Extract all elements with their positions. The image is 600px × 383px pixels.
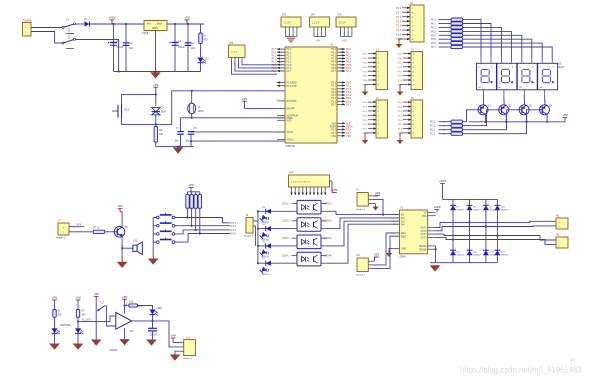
svg-text:SPK: SPK: [77, 224, 82, 227]
junction: [435, 248, 437, 250]
svg-text:Vin: Vin: [147, 22, 151, 25]
wire J9 gnd: [373, 203, 376, 205]
svg-text:Header 2: Header 2: [56, 237, 66, 240]
wire switch to D1: [76, 23, 85, 25]
capacitor C7 30p: [177, 131, 184, 133]
svg-text:P1.7: P1.7: [287, 71, 292, 73]
pin P1.5 left: [277, 64, 285, 66]
junction: [468, 221, 470, 223]
wire to base resistor: [439, 125, 452, 127]
svg-text:10K: 10K: [159, 133, 164, 136]
key switch K4: [157, 241, 160, 244]
diode D10: [494, 204, 500, 206]
pin 5 of J6: [403, 119, 411, 121]
svg-text:+5V: +5V: [184, 16, 191, 20]
wire segment net 3: [463, 31, 512, 57]
wire sensor row 3: [258, 245, 292, 247]
pin OUT1 of U7: [428, 227, 436, 229]
junction: [505, 121, 507, 123]
pin P0.3 right: [337, 58, 345, 60]
svg-text:ALE: ALE: [332, 122, 337, 125]
wire power stem: [119, 209, 121, 212]
pin 3 of JP1: [292, 27, 294, 37]
svg-text:P6.0: P6.0: [398, 102, 403, 104]
transistor Q1: [478, 105, 488, 115]
ground J2: [398, 42, 400, 45]
diode D9: [483, 204, 489, 206]
svg-text:OUT1: OUT1: [421, 228, 428, 230]
electrolytic capacitor C6 reset: [152, 108, 160, 115]
pin 10 of JP4: [324, 187, 326, 195]
pin 8 of J5: [368, 132, 376, 134]
pin EA/VPP: [277, 107, 285, 109]
pin 1 of J4: [403, 53, 411, 55]
svg-text:Header 3: Header 3: [356, 274, 366, 277]
pin 1 of J5: [368, 101, 376, 103]
connector J1 power input: [23, 23, 32, 37]
svg-text:↩: ↩: [570, 358, 575, 364]
svg-text:+5V: +5V: [562, 113, 569, 117]
svg-text:P2.4: P2.4: [331, 95, 336, 97]
capacitor C2: [123, 42, 130, 44]
header J2: [410, 5, 424, 42]
wire base Q1: [463, 110, 479, 122]
wire Q3 collector: [523, 95, 525, 105]
wire: [430, 262, 436, 264]
wire crystal ground line: [156, 146, 194, 148]
pin 5 of JP4: [306, 187, 308, 195]
svg-text:SENSB: SENSB: [419, 249, 427, 251]
svg-text:1N4007: 1N4007: [501, 210, 509, 212]
resistor RP2: [190, 195, 193, 209]
junction: [112, 23, 114, 25]
svg-text:OUT2: OUT2: [421, 231, 428, 233]
svg-text:Header 3: Header 3: [183, 357, 193, 360]
svg-text:P1.7: P1.7: [272, 70, 278, 73]
svg-text:P5.1: P5.1: [363, 107, 368, 109]
wire J7 pin2 to R7: [69, 231, 93, 233]
ground J4: [399, 89, 401, 92]
svg-text:P6.3: P6.3: [398, 115, 403, 117]
transistor Q5: [114, 227, 125, 238]
svg-text:OUT4: OUT4: [421, 238, 428, 240]
svg-text:-: -: [118, 325, 119, 329]
resistor R2: [451, 18, 463, 21]
connector M2: [556, 237, 568, 248]
pin 3 of JP3: [347, 27, 349, 37]
wire OUT4: [436, 237, 556, 244]
wire ground rail: [114, 71, 201, 73]
svg-text:470: 470: [204, 39, 209, 42]
svg-text:P1.0: P1.0: [287, 49, 292, 51]
wire K4 row: [175, 234, 231, 243]
connector J10: [357, 258, 368, 272]
pin 4 of J6: [403, 114, 411, 116]
resistor R1: [199, 33, 202, 44]
svg-text:P4.0: P4.0: [398, 54, 403, 56]
driver IC U7 L298: [400, 210, 428, 254]
wire R18 left: [125, 305, 129, 307]
svg-text:1N4007: 1N4007: [457, 210, 465, 212]
pin P1.3 left: [277, 58, 285, 60]
svg-text:P4.2: P4.2: [398, 63, 403, 65]
junction: [77, 320, 79, 322]
pin 1 of JP5: [231, 58, 233, 62]
wire K4 left: [153, 241, 156, 243]
svg-text:JP5: JP5: [229, 42, 234, 45]
svg-text:4 LED1A: 4 LED1A: [323, 202, 333, 205]
pin VSS of U7: [428, 215, 436, 217]
svg-text:LED1 1: LED1 1: [282, 203, 290, 205]
svg-text:P5.2: P5.2: [363, 111, 368, 113]
pin P2.4 right: [337, 94, 345, 96]
svg-text:Header 3: Header 3: [356, 208, 366, 211]
wire: [195, 192, 197, 195]
junction: [154, 70, 156, 72]
svg-text:220uF: 220uF: [117, 46, 124, 49]
photo diode PD3: [260, 248, 270, 258]
wire K1 row: [175, 218, 231, 223]
pin 2 of J10: [368, 264, 372, 266]
pin TXD left: [277, 85, 285, 87]
pin IN3 of U7: [392, 220, 400, 222]
top pin of DS3: [521, 58, 523, 63]
connector J8: [246, 218, 253, 234]
ground branch2: [73, 344, 84, 350]
svg-text:P1.2: P1.2: [396, 17, 401, 19]
header JP1: [281, 17, 301, 27]
junction: [546, 121, 548, 123]
svg-text:4 LED3A: 4 LED3A: [323, 237, 333, 240]
top pin of DS3: [531, 58, 533, 63]
wire sens to rail: [435, 246, 437, 263]
svg-text:P4.6: P4.6: [398, 80, 403, 82]
junction: [257, 228, 259, 230]
wire to R8: [439, 42, 452, 44]
svg-text:+5V: +5V: [122, 295, 129, 299]
header J3: [376, 52, 388, 90]
wire power stem: [111, 20, 113, 24]
pin 3 of JP5: [238, 58, 240, 62]
wire R2 to ground line: [155, 142, 157, 147]
svg-text:AT89C51: AT89C51: [285, 145, 296, 148]
wire power stem: [564, 117, 566, 121]
pin 2 of JP3: [343, 27, 345, 37]
LED D2 power indicator: [198, 58, 204, 63]
wire R18 to LED: [137, 306, 152, 310]
junction: [199, 232, 201, 234]
pin P1.0 left: [277, 48, 285, 50]
wire opto2 to IN2: [327, 218, 400, 229]
pin VSS right: [337, 135, 345, 137]
wire R7 to Q5 base: [105, 231, 115, 233]
header J4: [411, 52, 423, 90]
header J6: [411, 100, 423, 138]
pin 3 of J6: [403, 110, 411, 112]
ground crystal section: [173, 147, 184, 153]
bottom pin of DS2: [503, 89, 505, 95]
svg-text:LM393: LM393: [109, 348, 117, 352]
pin RST/VPD: [277, 100, 285, 102]
wire bus2: [254, 226, 256, 246]
pin 5 of J3: [368, 70, 376, 72]
photo diode PD1: [260, 213, 270, 223]
wire to R7: [439, 38, 452, 40]
svg-text:P3.6: P3.6: [363, 80, 368, 82]
svg-text:+5V: +5V: [75, 296, 82, 300]
wire Q1 collector: [482, 95, 484, 105]
wire RST to MCU: [156, 91, 285, 125]
header JP4: [289, 175, 330, 187]
svg-text:P1.4: P1.4: [287, 62, 292, 64]
svg-text:+5V: +5V: [52, 296, 59, 300]
svg-text:IN4148: IN4148: [262, 274, 270, 276]
pin XTAL1: [277, 131, 285, 133]
svg-text:P0.2: P0.2: [331, 56, 336, 58]
pin 6 of J2: [402, 29, 410, 31]
junction: [257, 245, 259, 247]
wire segment net 7: [463, 47, 553, 58]
wire to R1: [200, 24, 202, 33]
wire base Q4: [463, 110, 540, 134]
junction: [118, 70, 120, 72]
wire: [187, 192, 189, 195]
svg-text:P1.6: P1.6: [396, 35, 401, 37]
svg-text:P1.1: P1.1: [287, 52, 292, 54]
wire to C9: [152, 321, 154, 328]
pin 8 of J3: [368, 83, 376, 85]
wire to R4: [439, 26, 452, 28]
connector J7: [58, 223, 69, 235]
crystal Y1: [188, 103, 196, 114]
wire JP5 pin1: [232, 61, 278, 74]
capacitor C9: [148, 327, 157, 329]
bottom pin of DS3: [523, 89, 525, 95]
svg-text:P3.3: P3.3: [363, 67, 368, 69]
svg-text:P0.0: P0.0: [331, 49, 336, 51]
wire: [199, 192, 201, 195]
svg-text:P1.0: P1.0: [396, 8, 401, 10]
wire comparator output: [132, 320, 169, 322]
pin 7 of J4: [403, 79, 411, 81]
resistor RP4: [198, 195, 201, 209]
svg-text:+: +: [118, 316, 120, 320]
wire C5 bottom to RST node: [122, 118, 156, 124]
wire segment net 6: [463, 43, 543, 57]
junction: [191, 117, 193, 119]
svg-text:P3.4: P3.4: [363, 71, 368, 73]
LED D17: [150, 309, 156, 314]
svg-text:ENB: ENB: [401, 236, 406, 238]
svg-text:P2.7: P2.7: [346, 104, 352, 107]
wire segment net 2: [463, 27, 502, 57]
wire diode column 4: [496, 199, 498, 262]
resistor R11: [451, 124, 463, 127]
junction: [485, 121, 487, 123]
svg-text:R18: R18: [129, 301, 134, 303]
pin 4 of J3: [368, 66, 376, 68]
resistor R16: [76, 310, 79, 318]
wire R1 to LED: [200, 44, 202, 58]
wire +5V to C6: [155, 87, 157, 106]
svg-text:P5.4: P5.4: [363, 120, 368, 122]
svg-text:LED2 1: LED2 1: [282, 221, 290, 223]
resistor R4: [451, 26, 463, 29]
pin 6 of J5: [368, 123, 376, 125]
pin 2 of J5: [368, 106, 376, 108]
svg-text:+5V: +5V: [153, 83, 160, 87]
wire stub C5: [112, 110, 118, 112]
wire opamp vcc: [124, 301, 126, 314]
svg-text:4LED: 4LED: [558, 66, 564, 69]
bottom pin of DS4: [544, 89, 546, 95]
svg-text:P6.2: P6.2: [398, 111, 403, 113]
svg-text:4MHz: 4MHz: [198, 110, 205, 113]
svg-text:JP3: JP3: [337, 14, 342, 17]
junction: [124, 304, 126, 306]
wire C2 branch: [125, 24, 127, 72]
wire: [54, 317, 56, 328]
top pin of DS4: [541, 58, 543, 63]
diode D8: [467, 204, 473, 206]
capacitor C3: [171, 42, 178, 44]
MCU U1 AT89C51: [285, 47, 337, 143]
pin 4 of JP3: [351, 27, 353, 37]
svg-text:Vout: Vout: [157, 22, 162, 25]
svg-text:P3.7: P3.7: [331, 133, 336, 135]
header J5: [376, 100, 388, 138]
wire Q4 emitter: [546, 115, 548, 122]
wire K3 left: [153, 233, 156, 235]
pin 7 of J3: [368, 79, 376, 81]
svg-text:+12V: +12V: [433, 205, 441, 209]
pin 9 of JP4: [321, 187, 323, 195]
7-segment display DS2: [497, 63, 517, 90]
wire C8 to ground line: [190, 134, 192, 146]
svg-text:P4.4: P4.4: [398, 71, 403, 73]
wire regulator gnd: [155, 31, 157, 72]
svg-text:ENA: ENA: [401, 232, 406, 235]
wire Q4 collector: [544, 95, 546, 105]
ground U7: [388, 251, 390, 254]
wire: [54, 300, 56, 310]
svg-text:P0.3: P0.3: [331, 59, 336, 61]
svg-text:P2.3: P2.3: [430, 134, 435, 136]
wire J4 ground: [400, 84, 403, 89]
svg-text:10K: 10K: [138, 306, 143, 308]
wire RP3 to row: [195, 208, 197, 230]
pin P1.1 left: [277, 51, 285, 53]
pin 1 of J3: [368, 53, 376, 55]
wire wiper to comparator: [105, 306, 116, 326]
svg-text:P3.0/RXD: P3.0/RXD: [287, 83, 298, 85]
svg-text:+5V: +5V: [117, 204, 124, 208]
wire: [77, 300, 79, 310]
wire power stem: [244, 101, 246, 103]
svg-text:P4.1: P4.1: [398, 58, 403, 60]
pin 1 of JP3: [340, 27, 342, 37]
svg-text:R7 1K: R7 1K: [94, 228, 101, 230]
pin P2.6 right: [337, 100, 345, 102]
wire: [173, 342, 179, 344]
wire diode column 2: [469, 199, 471, 262]
wire J10 to ENB: [373, 236, 400, 268]
pin P1.2 left: [277, 54, 285, 56]
pin 1 of J11: [179, 342, 183, 344]
junction: [496, 234, 498, 236]
svg-text:P5.6: P5.6: [363, 129, 368, 131]
pin INT0: [277, 119, 285, 121]
svg-text:1N4007: 1N4007: [457, 255, 465, 257]
svg-text:P3.5: P3.5: [363, 76, 368, 78]
resistor R3: [451, 22, 463, 25]
wire sensor row 2: [258, 228, 292, 230]
svg-text:P2.3: P2.3: [331, 92, 336, 94]
resistor R7: [451, 38, 463, 41]
svg-text:10K: 10K: [58, 315, 63, 317]
wire: [191, 192, 193, 195]
svg-text:P0.3: P0.3: [431, 31, 436, 33]
resistor R18: [129, 304, 138, 307]
pin 4 of JP2: [324, 27, 326, 37]
svg-text:P0.4: P0.4: [331, 62, 336, 64]
pin 3 of J9: [368, 203, 372, 205]
svg-text:P5.0: P5.0: [363, 102, 368, 104]
wire K3 row: [175, 230, 231, 234]
wire to R2: [439, 19, 452, 21]
svg-text:TCRT5000: TCRT5000: [60, 325, 72, 327]
pin RXD left: [277, 82, 285, 84]
svg-text:P0.7: P0.7: [331, 71, 336, 73]
pin P1.4 left: [277, 61, 285, 63]
wire crystal bottom: [191, 114, 193, 118]
pin 2 of J4: [403, 57, 411, 59]
svg-text:LS1: LS1: [133, 240, 138, 243]
wire cap C8 branch: [190, 131, 192, 133]
svg-text:P6.6: P6.6: [398, 129, 403, 131]
wire to speaker: [122, 247, 133, 249]
pin P2.3 right: [337, 91, 345, 93]
header JP2: [310, 17, 330, 27]
svg-text:P4.5: P4.5: [398, 76, 403, 78]
pin 4 of JP4: [302, 187, 304, 195]
wire RP1 to row: [187, 208, 189, 217]
header JP3: [336, 17, 356, 27]
pin 1 of JP4: [291, 187, 293, 195]
wire opto4 to IN4: [327, 224, 400, 263]
pin 2 of J3: [368, 57, 376, 59]
svg-text:P0.6: P0.6: [431, 43, 436, 45]
svg-text:R17: R17: [100, 303, 105, 305]
svg-text:P1.3: P1.3: [287, 59, 292, 61]
svg-text:U1: U1: [330, 43, 334, 47]
ground J5: [364, 138, 366, 141]
wire J7 pin1: [69, 226, 84, 228]
pin P3.6 right: [337, 129, 345, 131]
wire base Q3: [463, 110, 520, 130]
wire: [120, 211, 122, 213]
wire Q3 emitter: [526, 115, 528, 122]
wire pullup bar: [188, 191, 200, 193]
pin 4 of JP1: [296, 27, 298, 37]
svg-text:VS: VS: [424, 213, 428, 215]
junction: [191, 225, 193, 227]
junction: [190, 140, 192, 142]
svg-text:7805: 7805: [152, 27, 158, 30]
svg-text:XTAL1: XTAL1: [287, 131, 295, 134]
svg-text:+5V: +5V: [342, 39, 347, 43]
top pin of DS1: [490, 58, 492, 63]
